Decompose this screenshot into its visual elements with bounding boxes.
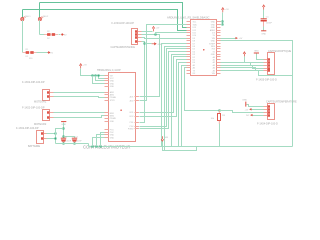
junction g3 (55, 138, 57, 140)
wire ct p2 flag (252, 109, 264, 111)
capacitor C2 (61, 138, 66, 144)
svg-text:A5: A5 (213, 69, 215, 72)
pin C1 bottom (263, 22, 265, 27)
svg-text:GND: GND (211, 41, 216, 43)
junction g2 (55, 133, 57, 135)
svg-text:A5: A5 (193, 64, 195, 67)
wire R1 down to rail (219, 124, 221, 147)
svg-text:GND: GND (110, 135, 115, 137)
svg-text:100nF: 100nF (266, 22, 273, 24)
svg-text:BIN2: BIN2 (110, 116, 114, 118)
resistor R1 (218, 110, 221, 124)
svg-text:PG1: PG1 (110, 129, 114, 131)
svg-text:A0: A0 (213, 56, 215, 59)
origin cross U2 (120, 109, 122, 111)
svg-text:PWMB: PWMB (110, 118, 117, 120)
junction tb a (92, 75, 94, 77)
wire bundle b8 (179, 63, 187, 147)
wire bundle b10 to R1 (185, 68, 220, 111)
svg-text:BO2: BO2 (130, 116, 134, 118)
pin port E1 (48, 51, 50, 53)
junction 5V a (222, 21, 224, 23)
ground GND4 rotated (245, 102, 247, 107)
wire to pair2 (40, 34, 45, 36)
svg-text:A3: A3 (213, 64, 215, 67)
wire bundle b2 (165, 47, 197, 151)
capacitor C1 (261, 19, 267, 22)
wire m1 p2 (54, 97, 105, 98)
wire co extra (221, 71, 293, 76)
svg-text:STBY: STBY (110, 100, 116, 102)
wire LED2 bottom (39, 21, 41, 35)
wire stair b (97, 135, 105, 147)
svg-text:GND: GND (110, 137, 115, 139)
wire gnd3 to pin (257, 54, 264, 60)
IC U1 ARDUINO_UNO_R3_SHIELDBASIC (187, 20, 221, 76)
diode D1 (30, 51, 34, 54)
svg-text:CAPTEURDISTANCE: CAPTEURDISTANCE (111, 46, 136, 49)
svg-text:D12: D12 (193, 30, 196, 32)
LED DEL1 (21, 16, 32, 21)
wire CD pin3 to U1 (142, 38, 187, 39)
connector CAPTEURDISTANCE F-1X04-DIP-100-DP (132, 29, 142, 45)
svg-text:D10: D10 (193, 35, 196, 37)
wire CD pin4 to TB6612 (140, 42, 145, 123)
svg-text:BATTERIE: BATTERIE (28, 145, 40, 148)
svg-text:AO2: AO2 (130, 100, 134, 103)
diode D2 (52, 33, 56, 36)
wire VIN loop right (221, 41, 293, 147)
svg-text:CAPTEURTEMPERATURE: CAPTEURTEMPERATURE (266, 101, 297, 104)
wire LED1 bottom (22, 21, 24, 53)
svg-text:D2: D2 (193, 57, 195, 59)
wire drop b (96, 76, 105, 81)
svg-text:GND: GND (242, 100, 247, 102)
svg-text:D4: D4 (193, 51, 195, 53)
junction tb c (98, 75, 100, 77)
wire CD pin2 to TB6612 AO1 (140, 35, 160, 97)
svg-text:PWMA: PWMA (110, 96, 117, 99)
svg-text:DEL1: DEL1 (25, 16, 31, 18)
wire drop a (93, 76, 105, 84)
svg-text:D3: D3 (193, 54, 195, 56)
svg-text:+5V: +5V (83, 64, 87, 66)
flag +5V D (236, 37, 238, 39)
svg-text:D8: D8 (193, 41, 195, 43)
svg-text:PGND: PGND (128, 129, 134, 131)
wire bat p1 up (47, 129, 64, 134)
supply arrow B (152, 42, 157, 45)
svg-text:F-1X04-DIP-100-DP: F-1X04-DIP-100-DP (112, 22, 135, 25)
connector MOTEUR1 F-1X02-DIP-100-DP (43, 90, 54, 101)
junction cap a (63, 143, 65, 145)
svg-text:D6: D6 (193, 46, 195, 48)
junction cd2 (155, 34, 157, 36)
junction r2 (96, 146, 98, 148)
wire pair1 out (37, 52, 48, 54)
svg-text:VM: VM (110, 75, 113, 77)
wire co p4 (221, 66, 264, 69)
svg-text:AIN2: AIN2 (110, 94, 114, 97)
IC U2 TB6612FNG (105, 73, 139, 142)
wire bundle b3 (140, 49, 187, 127)
wire bundle b5 (172, 55, 187, 147)
wire CD pin2 branch to U1 (156, 33, 187, 35)
svg-text:A1: A1 (213, 59, 215, 62)
flag I (250, 114, 252, 116)
svg-text:GND: GND (110, 86, 115, 88)
svg-text:PG2: PG2 (110, 132, 114, 134)
svg-text:VM: VM (165, 137, 168, 139)
ground GND1 (261, 30, 266, 32)
junction 5V b (222, 24, 224, 26)
wire bottom rail (89, 146, 293, 148)
wire LED1 top (22, 10, 24, 18)
svg-text:100nF: 100nF (65, 140, 72, 142)
capacitor C3 (72, 138, 77, 144)
junction r3 (100, 146, 102, 148)
wire gnd4 to pin (247, 105, 264, 107)
svg-text:TB6612FNG,C,4-DIP: TB6612FNG,C,4-DIP (97, 69, 121, 72)
wire to pair1 (22, 52, 24, 54)
svg-text:A2: A2 (213, 61, 215, 64)
resistor R1 (23, 52, 26, 54)
wire +5V drop (222, 13, 224, 25)
wire 5V to VM pin (81, 69, 105, 76)
wire co p3 (221, 63, 264, 66)
svg-text:3V3: 3V3 (212, 49, 215, 51)
svg-text:100nF: 100nF (76, 140, 83, 142)
svg-text:AREF: AREF (210, 29, 216, 32)
svg-text:+5V: +5V (239, 38, 243, 40)
svg-text:F-1X02-DIP-100-DP: F-1X02-DIP-100-DP (22, 81, 45, 84)
ground GND3 (254, 52, 259, 54)
svg-text:CONTROLEURMOTEUR: CONTROLEURMOTEUR (83, 145, 130, 150)
svg-text:D9: D9 (193, 38, 195, 40)
svg-text:GND: GND (211, 54, 216, 56)
wire 5V to pin1 (221, 21, 223, 23)
svg-text:IOREF: IOREF (209, 43, 216, 45)
svg-text:VCC: VCC (110, 78, 115, 80)
svg-text:ARDUINO_UNO_R3_SHIELDBASIC: ARDUINO_UNO_R3_SHIELDBASIC (167, 16, 210, 20)
svg-text:F-1X04-DIP-100-D: F-1X04-DIP-100-D (257, 122, 278, 125)
wire stair a (93, 138, 105, 147)
connector CAPTEUROPTIQUE F-1X05 (264, 53, 275, 75)
supply +5V arrow G (243, 52, 246, 57)
svg-text:GND: GND (110, 83, 115, 85)
svg-text:+5V: +5V (225, 9, 229, 11)
svg-text:GND: GND (211, 22, 216, 24)
wire bundle b7 (140, 60, 187, 117)
svg-text:D1: D1 (193, 60, 195, 62)
supply +5V arrow E (262, 5, 265, 10)
wire vm drop (163, 142, 197, 151)
wire 5Vg to pin (245, 57, 264, 63)
flag +5V H (249, 108, 251, 110)
svg-text:DEL2: DEL2 (43, 16, 49, 18)
wire AREF flag (221, 38, 236, 40)
wire C1 to gnd (263, 27, 265, 31)
wire cap2 branch (64, 137, 75, 139)
svg-text:F-1X05-DIP-100-D: F-1X05-DIP-100-D (256, 79, 277, 82)
svg-text:GND: GND (254, 50, 259, 52)
wire arrow B stub (145, 43, 152, 45)
wire bundle b1 (162, 44, 187, 147)
svg-text:D13: D13 (193, 27, 196, 29)
wire LED2 top (39, 3, 41, 18)
wire gnd rail A (56, 143, 89, 145)
svg-text:A4: A4 (193, 67, 195, 70)
wire bat p2 (47, 138, 56, 140)
connector BATTERIE F-1X02-DIP-100-DP (37, 131, 48, 144)
svg-text:D11: D11 (193, 33, 196, 35)
svg-text:BO1: BO1 (130, 112, 134, 114)
supply VMOT arrow down (161, 136, 164, 141)
wire C1 top (263, 10, 265, 19)
junction g1 (63, 128, 65, 130)
svg-text:D0: D0 (193, 62, 195, 64)
svg-text:D5: D5 (193, 49, 195, 51)
wire bundle b9 (182, 66, 187, 147)
wire CD pin1 (142, 31, 153, 33)
svg-text:MOTEUR2: MOTEUR2 (34, 123, 47, 126)
svg-text:F-1X02-DIP-100-DP: F-1X02-DIP-100-DP (22, 106, 45, 109)
connector MOTEUR2 F-1X02-DIP-100-DP (43, 110, 54, 121)
junction cap b (74, 143, 76, 145)
junction R1 top (219, 110, 221, 112)
wire m2 p2 (54, 116, 105, 118)
svg-text:+5V: +5V (156, 27, 160, 29)
junction r1 (92, 146, 94, 148)
wire m1 p1 (54, 92, 105, 94)
wire bundle b6 (140, 57, 187, 113)
svg-text:GND: GND (211, 27, 216, 29)
wire U1 pin to TB6612 AO2 (140, 25, 187, 101)
wire gnd drop (63, 123, 65, 139)
svg-text:GND: GND (110, 121, 115, 123)
svg-text:+5V: +5V (245, 109, 249, 111)
svg-text:SCL: SCL (193, 22, 197, 24)
wire drop c (99, 76, 105, 79)
svg-text:AO1: AO1 (130, 96, 134, 99)
wire ct p4 flag (253, 115, 264, 117)
svg-text:MOTEUR1: MOTEUR1 (34, 101, 47, 104)
connector CAPTEURTEMPERATURE F-1X04 (264, 104, 275, 120)
wire R1 net to CAPTEURTEMPERATURE (220, 111, 264, 113)
junction g4 (63, 136, 65, 138)
wire net bus1 (40, 3, 191, 28)
resistor R2 (44, 34, 47, 36)
ground GND2 (61, 121, 66, 123)
supply +5V arrow C (222, 8, 225, 13)
svg-text:BIN1: BIN1 (110, 113, 114, 115)
svg-text:AIN1: AIN1 (110, 91, 114, 94)
wire rail link (88, 144, 90, 147)
svg-text:F-1X02-DIP-100-DP: F-1X02-DIP-100-DP (16, 127, 39, 130)
svg-text:GND: GND (110, 81, 115, 83)
wire 5V to pin2 (221, 24, 223, 26)
wire m2 p1 (54, 112, 105, 114)
wire net bus2 (23, 10, 191, 31)
svg-text:CAPTEUROPTIQUE: CAPTEUROPTIQUE (268, 50, 292, 53)
wire co p5 (221, 68, 264, 71)
svg-text:PG1: PG1 (130, 122, 134, 124)
wire bundle b4 (140, 52, 187, 129)
wire stair c (101, 133, 105, 147)
wire pair2 out (59, 34, 61, 36)
svg-text:PG2: PG2 (130, 126, 134, 128)
svg-text:GND: GND (211, 24, 216, 26)
pin port E2 (61, 33, 63, 35)
wire bat v (55, 129, 57, 144)
svg-text:D7: D7 (193, 43, 195, 45)
supply +5V arrow F (79, 64, 82, 69)
LED DEL2 (38, 16, 49, 21)
svg-text:GND: GND (261, 33, 266, 35)
junction arrow B (144, 43, 146, 45)
origin cross U1 (203, 49, 205, 51)
supply +5V arrow A (152, 27, 155, 32)
svg-text:A4: A4 (213, 67, 215, 70)
junction tb b (95, 75, 97, 77)
